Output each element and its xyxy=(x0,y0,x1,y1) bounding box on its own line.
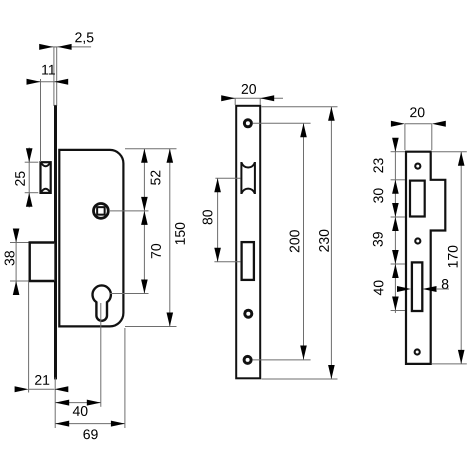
dim 11 right arrow xyxy=(54,79,68,85)
dim 21 line xyxy=(29,388,55,390)
spindle square hole xyxy=(97,207,105,215)
cylinder extension line xyxy=(110,293,149,295)
dim 11 line xyxy=(27,81,68,83)
strike screw hole middle xyxy=(414,237,421,244)
dim 150 bottom arrow xyxy=(167,313,174,327)
dim 38 line xyxy=(15,229,17,295)
dim 230 line xyxy=(330,107,332,379)
chain dim line xyxy=(394,140,396,313)
dim 200 text xyxy=(290,230,300,252)
dim 8 right arrow xyxy=(423,286,437,292)
chain tick 264 xyxy=(391,263,405,265)
screw hole bottom xyxy=(243,355,253,365)
latch bevel bottom arc xyxy=(41,189,51,193)
faceplate front outline xyxy=(236,106,260,379)
dim 21 right arrow xyxy=(54,386,68,392)
faceplate bottom extension xyxy=(54,378,56,429)
dim 38 top arrow xyxy=(13,229,20,243)
dim 200 top arrow xyxy=(300,123,307,137)
spindle extension line xyxy=(109,210,149,212)
case bottom extension line xyxy=(125,326,177,328)
dim 20 middle left arrow xyxy=(221,95,235,101)
dim 150 top arrow xyxy=(167,149,174,163)
chain arrow down at 151.7 xyxy=(392,138,399,152)
dim 69 right arrow xyxy=(111,421,125,427)
dim 20 right right extension xyxy=(431,124,433,150)
lock case outline xyxy=(58,149,123,328)
dim 8 tail xyxy=(436,288,449,290)
dim 70 top arrow xyxy=(141,211,148,225)
deadbolt front extension xyxy=(28,282,30,393)
dim 230 bottom extension xyxy=(262,378,338,380)
dim 170 top arrow xyxy=(458,152,465,166)
dim 20 right text xyxy=(410,107,424,117)
dim 39 text xyxy=(373,232,383,246)
dim 200 top extension xyxy=(253,122,311,124)
dim 11 left arrow xyxy=(27,79,41,85)
dim 80 top arrow xyxy=(214,178,221,192)
strike screw hole top xyxy=(414,163,421,170)
dim 11 text xyxy=(42,65,55,75)
deadbolt side view xyxy=(30,243,55,282)
dim 230 top extension xyxy=(262,106,338,108)
dim 38 top tick xyxy=(10,242,29,244)
dim 150 text xyxy=(175,223,185,245)
dim 52 text xyxy=(151,171,161,185)
dim 52 bottom arrow xyxy=(141,197,148,211)
dim 69 text xyxy=(83,429,97,439)
dim 80 text xyxy=(203,210,213,224)
dim 70 text xyxy=(151,244,161,258)
cylinder vertical extension xyxy=(100,303,102,407)
dim 20 right left extension xyxy=(404,124,406,150)
chain arrow down at 217 xyxy=(392,203,399,217)
latch bolt side view xyxy=(41,162,51,193)
dim 25 top tick xyxy=(25,161,39,163)
dim 170 bottom arrow xyxy=(458,350,465,364)
latch front top arc xyxy=(241,163,255,168)
dim 25 bottom arrow xyxy=(26,193,33,207)
latch bevel top arc xyxy=(41,162,51,166)
dim 52 top arrow xyxy=(141,149,148,163)
chain tick 217 xyxy=(391,216,405,218)
chain arrow up at 217 xyxy=(392,217,399,231)
deadbolt slot xyxy=(412,262,422,311)
dim 20 middle line xyxy=(222,97,283,99)
dim 8 text xyxy=(442,279,449,289)
strike plate outline xyxy=(406,152,445,364)
dim 20 right right arrow xyxy=(432,121,446,127)
dim 40 line xyxy=(55,402,101,404)
screw hole top xyxy=(243,118,253,128)
chain tick 179.8 xyxy=(391,179,405,181)
chain tick 151.7 xyxy=(391,151,405,153)
dim 20 middle text xyxy=(242,84,256,94)
dim 21 left arrow xyxy=(15,386,29,392)
chain arrow up at 264 xyxy=(392,264,399,278)
dim 80 line xyxy=(217,178,219,261)
dim 200 bottom arrow xyxy=(300,346,307,360)
dim 200 line xyxy=(303,123,305,359)
spindle follower circle xyxy=(94,204,109,219)
dim 170 bottom extension xyxy=(432,363,467,365)
dim 8 left arrow xyxy=(397,286,411,292)
dim 25 bottom tick xyxy=(25,192,39,194)
dim 38 bottom arrow xyxy=(13,281,20,295)
chain arrow down at 310.5 xyxy=(392,297,399,311)
chain arrow down at 264 xyxy=(392,250,399,264)
dim 230 top arrow xyxy=(328,107,335,121)
dim 69 line xyxy=(55,423,125,425)
latch front bottom arc xyxy=(241,189,255,194)
case right bottom extension xyxy=(124,328,126,428)
strike screw hole bottom xyxy=(414,348,421,355)
faceplate edge (solid strip) xyxy=(54,105,57,379)
faceplate edge (thin outline top part) xyxy=(54,47,57,105)
dim 170 top extension xyxy=(432,151,467,153)
dim 150 line xyxy=(169,149,171,327)
dim 200 bottom extension xyxy=(253,359,311,361)
dim 2,5 right arrow xyxy=(58,44,72,50)
dim 2,5 left arrow xyxy=(39,44,53,50)
dim 20 right left arrow xyxy=(391,121,405,127)
latch opening xyxy=(410,181,425,217)
dim 20 middle right extension xyxy=(259,98,261,105)
euro cylinder hole xyxy=(93,285,111,320)
dim 30 text xyxy=(373,188,383,202)
dim 25 line xyxy=(28,148,30,208)
screw hole middle xyxy=(243,309,253,319)
dim 20 right line xyxy=(405,123,432,125)
dim 2,5 line xyxy=(40,46,91,48)
dim 11 extension line xyxy=(40,79,42,162)
deadbolt front opening xyxy=(242,242,254,280)
dim 230 bottom arrow xyxy=(328,365,335,379)
dim 80 top tick xyxy=(215,177,240,179)
dim 38 text xyxy=(5,251,15,265)
dim 230 text xyxy=(319,230,329,252)
dim 80 bottom tick xyxy=(214,261,240,263)
dim 25 top arrow xyxy=(26,148,33,162)
dim 20 middle left extension xyxy=(234,98,236,105)
dim 25 text xyxy=(15,172,25,186)
chain tick 310.5 xyxy=(391,310,405,312)
dim 40 text xyxy=(73,406,88,416)
dim 69 left arrow xyxy=(55,421,69,427)
dim 2,5 text xyxy=(75,32,93,44)
dim 38 bottom tick xyxy=(10,280,29,282)
dim 70 bottom arrow xyxy=(141,280,148,294)
dim 21 text xyxy=(35,375,49,385)
dim 23 text xyxy=(373,158,383,172)
chain arrow up at 179.8 xyxy=(392,180,399,194)
dim 40 right arrow xyxy=(87,400,101,406)
dim 80 bottom arrow xyxy=(214,248,221,262)
dim 20 middle right arrow xyxy=(260,95,274,101)
dim 40 right text xyxy=(374,280,384,295)
latch front sides xyxy=(241,162,255,194)
dim 170 text xyxy=(448,246,458,268)
case top extension line xyxy=(125,148,177,150)
dim 170 line xyxy=(460,152,462,364)
dim 52/70 line xyxy=(143,149,145,294)
dim 40 left arrow xyxy=(55,400,69,406)
